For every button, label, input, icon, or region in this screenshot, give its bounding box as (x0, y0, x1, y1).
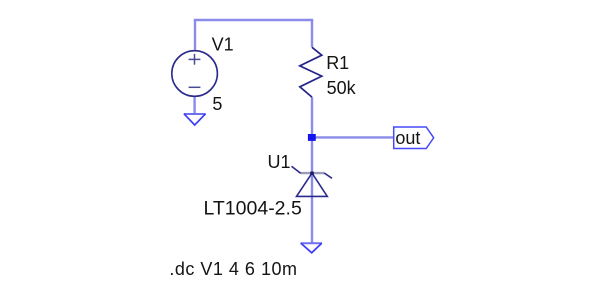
svg-text:LT1004-2.5: LT1004-2.5 (204, 198, 302, 220)
wire (194, 20, 196, 51)
wire (311, 173, 313, 243)
resistor R1 (300, 47, 322, 97)
value LT1004-2.5 (204, 198, 302, 220)
diode U1 (292, 166, 333, 196)
svg-text:V1: V1 (212, 34, 234, 54)
wire (194, 19, 313, 21)
svg-text:5: 5 (212, 94, 222, 114)
voltage source V1 (172, 51, 218, 97)
ground (301, 243, 322, 253)
junction (308, 134, 316, 141)
label V1 (212, 34, 234, 54)
svg-text:R1: R1 (326, 53, 349, 73)
svg-text:.dc V1 4 6 10m: .dc V1 4 6 10m (169, 259, 297, 279)
wire (311, 97, 313, 173)
value 5 (212, 94, 222, 114)
value 50k (327, 78, 357, 98)
wire (311, 20, 313, 47)
label R1 (326, 53, 349, 73)
svg-text:50k: 50k (327, 78, 357, 98)
net flag out (394, 127, 434, 149)
wire (193, 96, 195, 114)
wire (312, 136, 394, 138)
svg-text:out: out (395, 128, 420, 148)
spice directive .dc V1 4 6 10m (169, 259, 297, 279)
label U1 (268, 152, 291, 172)
ground (184, 114, 206, 125)
svg-text:U1: U1 (268, 152, 291, 172)
